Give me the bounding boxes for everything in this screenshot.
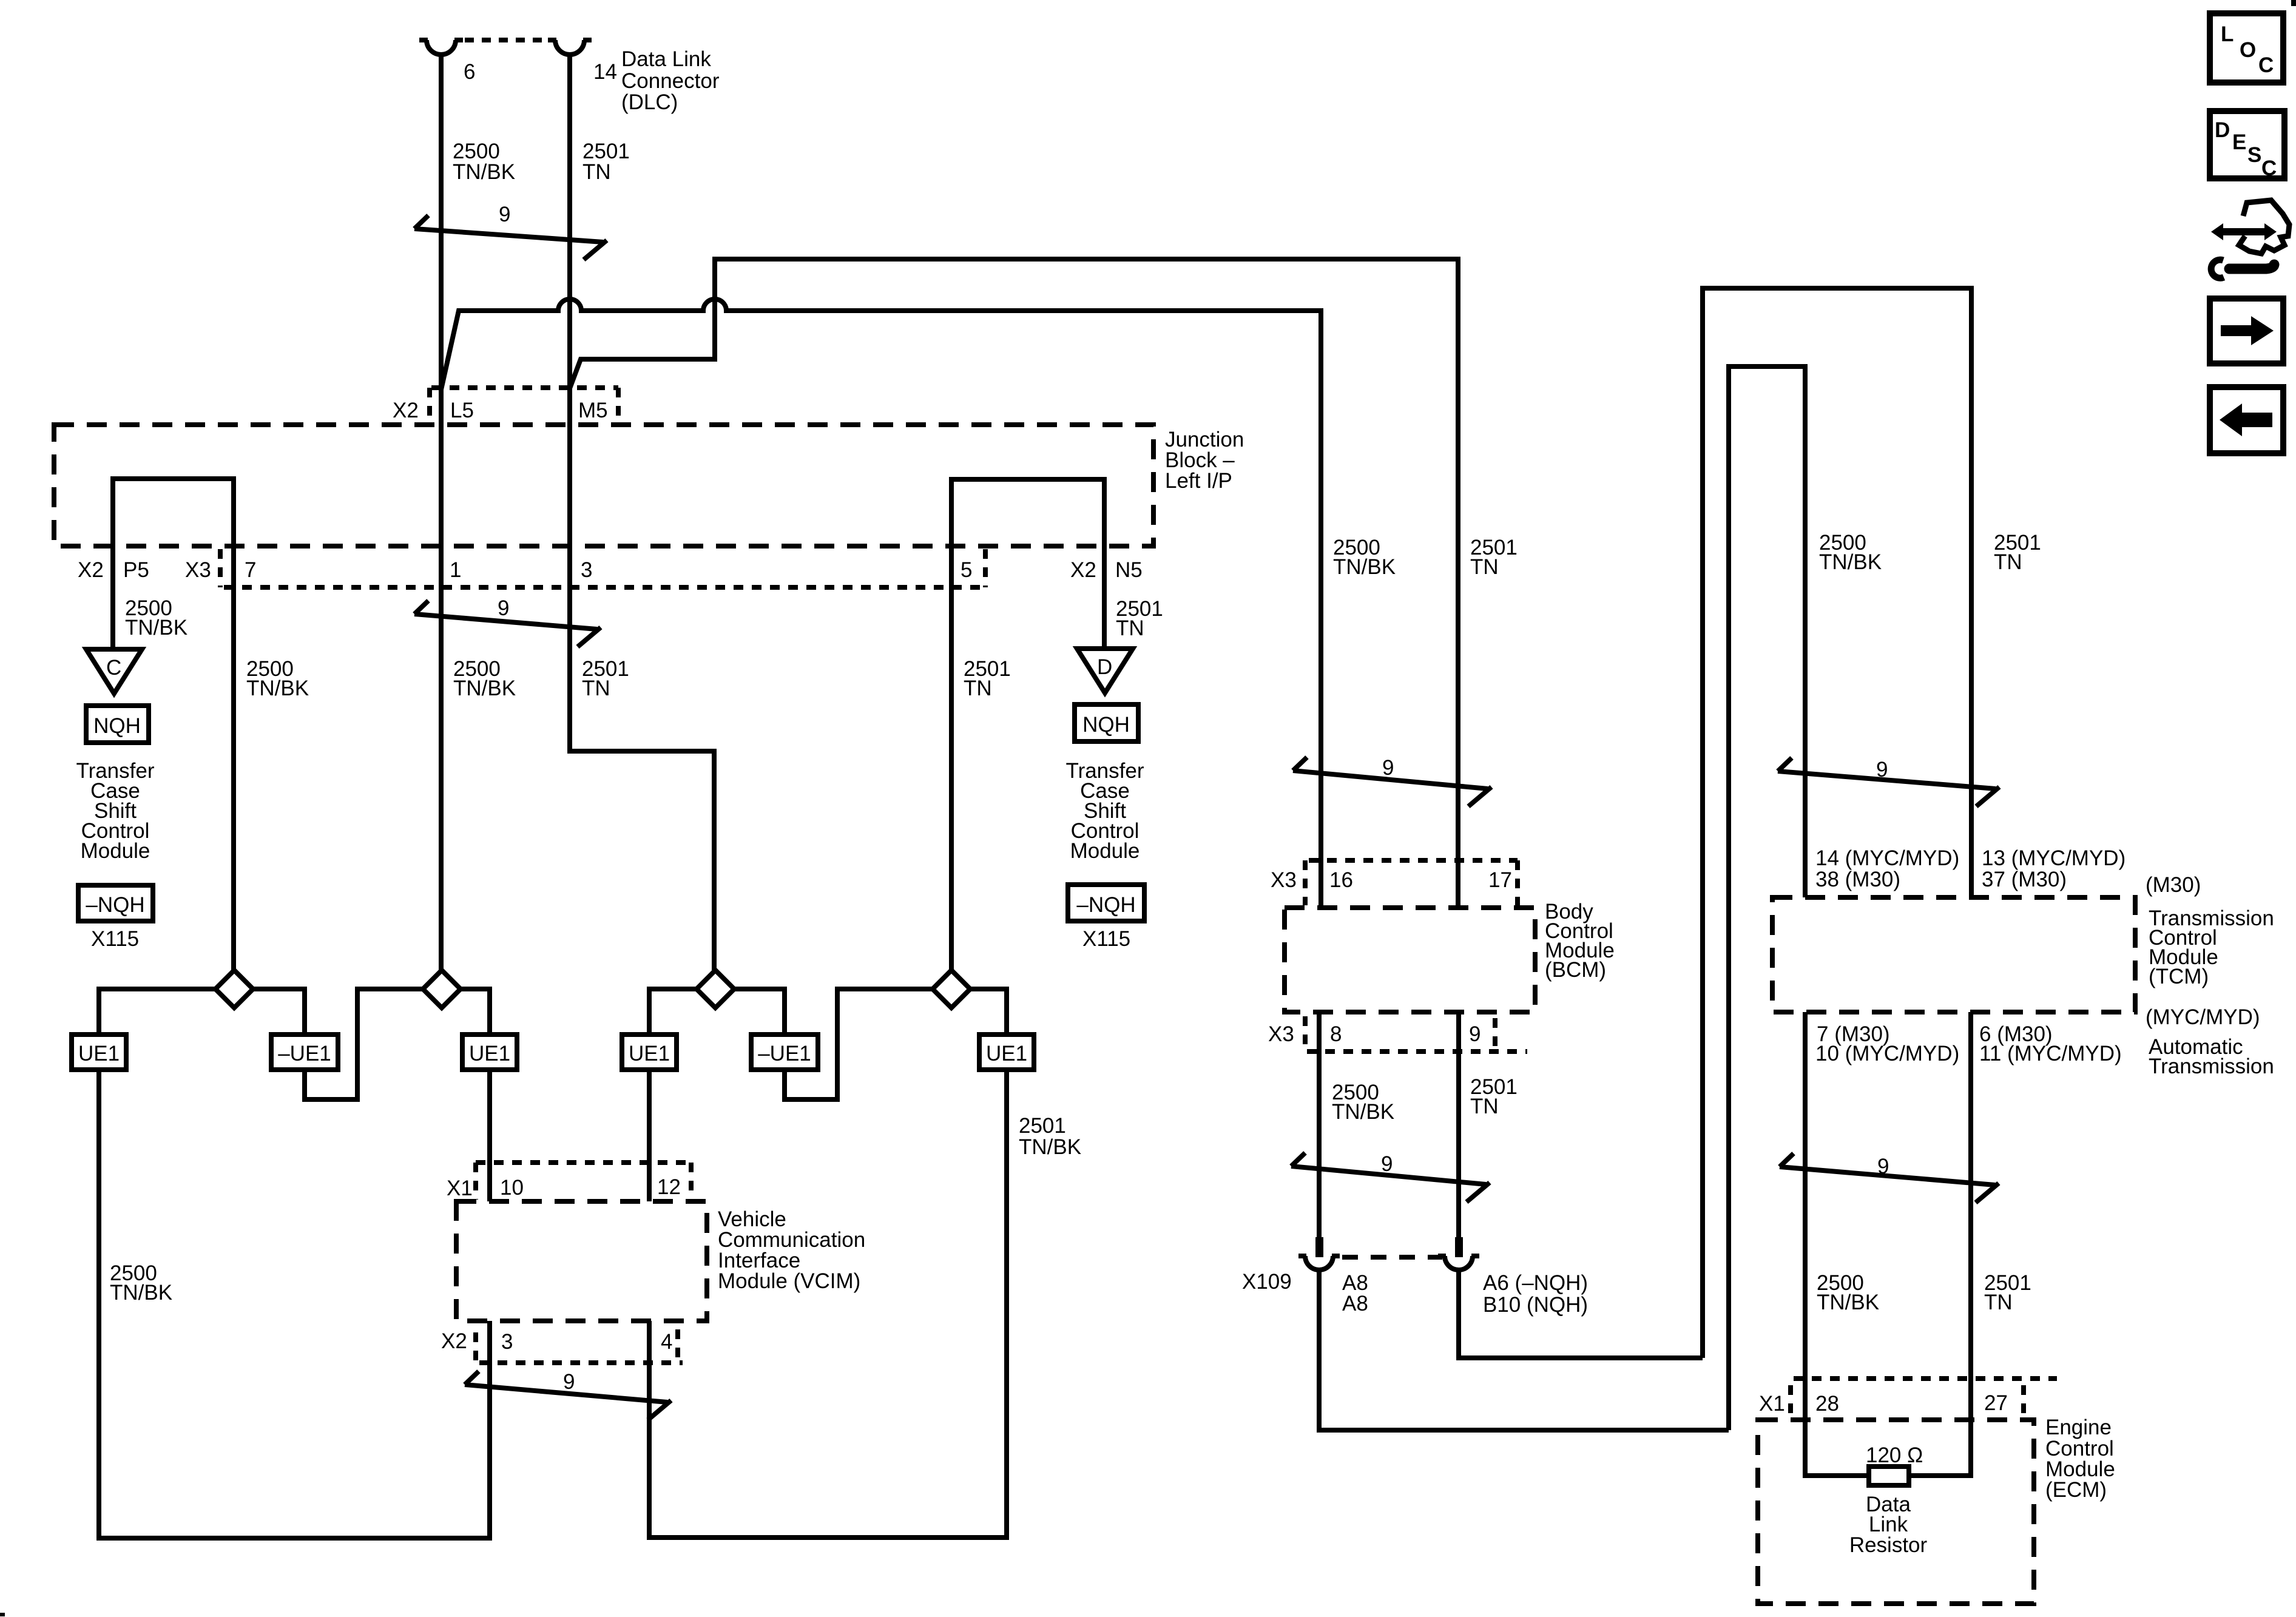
wire label 2501 TN (582, 140, 630, 184)
VCIM connector X2 dotted strip (476, 1329, 683, 1363)
svg-text:TN/BK: TN/BK (246, 677, 309, 700)
svg-text:X115: X115 (91, 927, 139, 951)
BCM label (1545, 900, 1615, 982)
wire riser up and over to TCM pin 14 (inner U) (1729, 366, 1805, 1430)
svg-text:X2: X2 (393, 399, 419, 422)
Data Link Connector (DLC) label (621, 47, 720, 114)
wire label 2500 TN/BK (pin 1 wire) (453, 657, 516, 700)
svg-text:Engine: Engine (2045, 1416, 2112, 1439)
Transfer Case Shift Control Module label (left) (76, 759, 154, 863)
svg-text:–UE1: –UE1 (758, 1042, 811, 1065)
data link resistor body (1869, 1467, 1909, 1485)
svg-text:P5: P5 (123, 558, 149, 582)
wire gauge marker 9 (below junction block) (414, 596, 601, 647)
svg-text:3: 3 (581, 558, 592, 582)
svg-text:4: 4 (661, 1330, 672, 1354)
svg-text:(ECM): (ECM) (2045, 1478, 2107, 1502)
ECM label (2045, 1416, 2115, 1502)
svg-text:12: 12 (657, 1175, 681, 1199)
svg-text:9: 9 (1381, 1152, 1393, 1176)
legend icon DESC box (2210, 111, 2284, 180)
svg-text:(BCM): (BCM) (1545, 958, 1606, 982)
wire loop from -UE1 connector 2 up to S2 left arm (305, 989, 423, 1099)
BCM connector X3 dotted strip (bottom) (1305, 1016, 1527, 1052)
off-page arrow D (to Transfer Case Shift Control Module) (1077, 649, 1133, 693)
svg-text:C: C (106, 656, 121, 680)
svg-text:M5: M5 (578, 399, 608, 422)
wire label 2501 TN (pin 5 wire) (964, 657, 1011, 700)
svg-text:38 (M30): 38 (M30) (1815, 868, 1900, 891)
wire gauge marker 9 (top, DLC wires) (414, 203, 607, 260)
wire from S3 right arm down into -UE1 connector 5 (734, 989, 785, 1035)
svg-text:TN: TN (1470, 1095, 1499, 1118)
wire 2501 TN from TCM pin 6 down to ECM pin 27 and data link resistor (1909, 1012, 1971, 1476)
in-line connector X109 pin A8 (pin stub and cup) (1298, 1237, 1340, 1270)
svg-text:UE1: UE1 (469, 1042, 510, 1065)
svg-text:TN: TN (1984, 1291, 2013, 1314)
svg-text:37 (M30): 37 (M30) (1982, 868, 2067, 891)
splice diamond S2 (423, 970, 461, 1008)
TCM terminal label 14 (MYC/MYD) / 38 (M30) (1815, 846, 1959, 891)
svg-text:TN: TN (582, 677, 610, 700)
in-line connector box UE1 (3) (462, 1035, 517, 1070)
legend icon back arrow box (2210, 387, 2283, 453)
svg-text:TN/BK: TN/BK (453, 160, 515, 184)
svg-text:9: 9 (498, 596, 509, 620)
wire loop from -UE1 connector 5 up to S4 left arm (785, 989, 933, 1099)
wire 2501 TN/BK from UE1(6) down and left to VCIM X2 pin 4 (649, 1070, 1007, 1538)
svg-text:UE1: UE1 (986, 1042, 1027, 1065)
junction block internal wire U from X2 P5 to X3 pin 7 (113, 479, 234, 970)
svg-text:(TCM): (TCM) (2149, 965, 2209, 988)
svg-text:TN/BK: TN/BK (1332, 1100, 1394, 1124)
wire 2500 TN/BK from TCM pin 7 down to ECM pin 28 and data link resistor (1805, 1012, 1869, 1476)
wire label 2500 TN/BK (below X2 P5) (125, 596, 187, 640)
BCM connector X3 dotted strip (top) (1305, 860, 1518, 905)
circuit code box NQH (right) (1075, 704, 1138, 741)
svg-text:TN: TN (582, 160, 611, 184)
svg-text:(DLC): (DLC) (621, 90, 678, 114)
svg-text:1: 1 (450, 558, 461, 582)
TCM terminal label 7 (M30) / 10 (MYC/MYD) (1815, 1022, 1959, 1065)
Data Link Resistor label (1849, 1493, 1928, 1557)
svg-text:–NQH: –NQH (86, 893, 144, 917)
wire from S1 left arm down into UE1 connector 1 (99, 989, 215, 1035)
svg-text:14: 14 (593, 60, 617, 84)
svg-text:9: 9 (1469, 1022, 1481, 1046)
wire label 2501 TN (above BCM pin 17) (1470, 536, 1518, 579)
wire gauge marker 9 (above BCM) (1293, 756, 1491, 806)
page corner mark bottom-left (0, 1613, 5, 1616)
svg-text:A8: A8 (1342, 1292, 1368, 1315)
wire label 2500 TN/BK (pin 7 wire) (246, 657, 309, 700)
wire gauge marker 9 (above ECM) (1780, 1153, 1999, 1203)
svg-text:10 (MYC/MYD): 10 (MYC/MYD) (1815, 1042, 1959, 1065)
svg-text:C: C (2261, 157, 2277, 180)
off-page arrow C (to Transfer Case Shift Control Module) (86, 649, 142, 694)
wire label 2501 TN (below X2 N5) (1116, 597, 1163, 640)
junction block connector X2 dotted strip (L5 M5) (430, 388, 618, 425)
TCM label (2149, 906, 2274, 988)
svg-text:X109: X109 (1242, 1270, 1292, 1294)
wire 2501 TN from BCM pin 9 down to X109 pin B10 (1456, 1012, 1461, 1238)
svg-text:TN: TN (1116, 616, 1144, 640)
svg-text:TN: TN (1470, 555, 1499, 579)
wire 2501 TN from DLC pin 14 down, jog right, to splice S3 (570, 55, 714, 970)
wire from S2 right arm down into UE1 connector 3 (461, 989, 490, 1035)
svg-text:5: 5 (961, 558, 972, 582)
svg-text:X3: X3 (185, 558, 211, 582)
svg-text:10: 10 (500, 1176, 524, 1200)
svg-text:16: 16 (1329, 868, 1353, 892)
wire label 2500 TN/BK (above TCM pin 14) (1819, 531, 1882, 574)
svg-text:–UE1: –UE1 (278, 1042, 331, 1065)
circuit code box NQH (left) (86, 706, 149, 743)
wire label 2500 TN/BK (above ECM pin 28) (1817, 1271, 1879, 1314)
junction block X3 dotted strip (220, 549, 985, 587)
svg-text:TN: TN (1994, 550, 2022, 574)
svg-text:X2: X2 (78, 558, 104, 582)
wire label 2500 TN/BK (below BCM pin 8) (1332, 1081, 1394, 1124)
svg-text:Module: Module (81, 839, 150, 863)
wire from S3 left arm down into UE1 connector 4 (649, 989, 697, 1035)
svg-text:17: 17 (1488, 868, 1512, 892)
wire from X109 B10 down and right to TCM pin 13 riser (1459, 1271, 1703, 1358)
svg-text:9: 9 (1876, 758, 1888, 781)
svg-text:7: 7 (245, 558, 256, 582)
in-line connector box -UE1 (5) (751, 1035, 818, 1070)
svg-text:D: D (1097, 655, 1112, 679)
splice diamond S4 (933, 970, 970, 1008)
in-line connector box UE1 (4) (622, 1035, 677, 1070)
connector DLC pin 14 cup (548, 40, 592, 55)
wire from X109 A8 down and right to TCM pin 14 riser (1319, 1271, 1729, 1430)
svg-text:6: 6 (464, 60, 475, 84)
circuit code box -NQH (left) (78, 885, 153, 921)
wire gauge marker 9 (above TCM) (1778, 758, 1999, 806)
wire label 2500 TN/BK (bottom left) (110, 1261, 172, 1305)
svg-text:D: D (2215, 118, 2230, 142)
svg-text:–NQH: –NQH (1076, 893, 1135, 917)
wire from S1 right arm down into -UE1 connector 2 (253, 989, 305, 1035)
svg-text:B10 (NQH): B10 (NQH) (1483, 1293, 1588, 1317)
Body Control Module (BCM) dashed box (1285, 908, 1535, 1012)
svg-text:8: 8 (1330, 1022, 1342, 1046)
X109 connector dashed line (1342, 1255, 1442, 1260)
wire label 2500 TN/BK (above BCM pin 16) (1333, 536, 1396, 579)
svg-text:11 (MYC/MYD): 11 (MYC/MYD) (1979, 1042, 2122, 1065)
legend icon connector-repair (double arrow, connector outline, wrench) (2211, 200, 2289, 278)
Transfer Case Shift Control Module label (right) (1065, 759, 1144, 863)
legend icon LOC box (2210, 13, 2283, 83)
svg-text:TN/BK: TN/BK (1819, 550, 1882, 574)
svg-text:120 Ω: 120 Ω (1866, 1443, 1923, 1467)
svg-text:X2: X2 (1070, 558, 1096, 582)
svg-text:9: 9 (1382, 756, 1394, 780)
svg-text:13 (MYC/MYD): 13 (MYC/MYD) (1982, 846, 2125, 870)
in-line connector box -UE1 (2) (271, 1035, 338, 1070)
svg-text:9: 9 (563, 1370, 575, 1394)
splice diamond S3 (697, 970, 734, 1008)
svg-text:UE1: UE1 (629, 1042, 670, 1065)
splice diamond S1 (215, 970, 253, 1008)
svg-text:9: 9 (499, 203, 510, 226)
svg-text:9: 9 (1877, 1155, 1889, 1178)
wire from UE1(4) down to VCIM X1 pin 12 (647, 1070, 652, 1201)
svg-text:(M30): (M30) (2146, 873, 2201, 897)
terminal label A8 / A8 (1342, 1271, 1368, 1315)
svg-text:X1: X1 (447, 1176, 473, 1200)
wire label 2501 TN (below BCM pin 9) (1470, 1075, 1518, 1118)
svg-text:S: S (2247, 143, 2261, 167)
Junction Block - Left I/P dashed box (54, 425, 1153, 546)
wire label 2501 TN/BK (below UE1 6) (1019, 1114, 1081, 1159)
wire label 2501 TN (above TCM pin 13) (1994, 531, 2041, 574)
wire label 2501 TN (above ECM pin 27) (1984, 1271, 2031, 1314)
wire 2501 TN branch (line A) from DLC pin14 wire to BCM pin 17 (570, 259, 1458, 908)
wire label 2501 TN (pin 3 wire) (582, 657, 629, 700)
svg-text:NQH: NQH (1082, 713, 1130, 737)
svg-text:3: 3 (501, 1330, 513, 1354)
in-line connector X109 pin B10 (pin stub and cup) (1438, 1237, 1479, 1270)
wire from S4 right arm down into UE1 connector 6 (970, 989, 1007, 1035)
in-line connector box UE1 (1) (72, 1035, 126, 1070)
svg-text:(MYC/MYD): (MYC/MYD) (2146, 1005, 2260, 1029)
junction block internal wire U from X3 pin 5 to X2 N5 (951, 479, 1104, 970)
VCIM connector X1 dotted strip (476, 1163, 692, 1200)
Data Link Connector (DLC) dashed outline (465, 38, 546, 42)
svg-text:Module (VCIM): Module (VCIM) (718, 1269, 860, 1293)
svg-text:Left I/P: Left I/P (1165, 469, 1232, 493)
connector DLC pin 6 cup (419, 40, 463, 55)
svg-text:X3: X3 (1268, 1022, 1294, 1046)
svg-text:28: 28 (1815, 1392, 1839, 1416)
wire riser up and over to TCM pin 13 (outer U) (1703, 288, 1971, 1358)
svg-text:X2: X2 (441, 1329, 467, 1353)
svg-text:TN/BK: TN/BK (1333, 555, 1396, 579)
in-line connector box UE1 (6) (979, 1035, 1034, 1070)
wire 2500 TN/BK from BCM pin 8 down to X109 pin A8 (1317, 1012, 1322, 1238)
svg-text:E: E (2232, 130, 2246, 154)
wire gauge marker 9 (below VCIM) (465, 1370, 671, 1420)
Transmission Control Module (TCM) dashed box (1772, 897, 2135, 1012)
svg-text:X1: X1 (1759, 1392, 1785, 1416)
wire gauge marker 9 (above X109) (1291, 1152, 1490, 1202)
ECM connector X1 dotted strip (1791, 1379, 2057, 1414)
terminal label A6 (-NQH) / B10 (NQH) (1483, 1271, 1588, 1317)
svg-text:Data Link: Data Link (621, 47, 711, 71)
svg-text:X115: X115 (1082, 927, 1130, 951)
svg-text:27: 27 (1984, 1391, 2008, 1415)
TCM terminal label 6 (M30) / 11 (MYC/MYD) (1979, 1022, 2122, 1065)
svg-text:TN/BK: TN/BK (1019, 1135, 1081, 1159)
TCM terminal label 13 (MYC/MYD) / 37 (M30) (1982, 846, 2125, 891)
wire 2500 TN/BK from DLC pin 6 down to splice S2 (439, 55, 444, 970)
circuit code box -NQH (right) (1068, 885, 1144, 921)
svg-text:N5: N5 (1115, 558, 1143, 582)
svg-text:14 (MYC/MYD): 14 (MYC/MYD) (1815, 846, 1959, 870)
svg-text:TN/BK: TN/BK (110, 1281, 172, 1305)
svg-text:X3: X3 (1271, 868, 1297, 892)
svg-text:NQH: NQH (93, 714, 141, 738)
svg-text:UE1: UE1 (78, 1042, 120, 1065)
svg-text:TN/BK: TN/BK (453, 677, 516, 700)
wire from UE1(3) down to VCIM X1 pin 10 (487, 1070, 492, 1201)
svg-text:Module: Module (1070, 839, 1140, 863)
svg-text:A6 (–NQH): A6 (–NQH) (1483, 1271, 1588, 1295)
wire 2500 TN/BK from UE1(1) down and right to VCIM X2 pin 3 (99, 1070, 490, 1538)
svg-text:Connector: Connector (621, 69, 720, 93)
TCM label Automatic Transmission (2149, 1035, 2274, 1078)
svg-text:TN: TN (964, 677, 992, 700)
svg-text:TN/BK: TN/BK (1817, 1291, 1879, 1314)
page corner mark top-right (2291, 0, 2296, 6)
Engine Control Module (ECM) dashed box (1758, 1420, 2034, 1604)
svg-text:TN/BK: TN/BK (125, 616, 187, 640)
svg-text:C: C (2258, 53, 2274, 77)
Junction Block label (1165, 428, 1244, 493)
legend icon forward arrow box (2210, 299, 2283, 363)
svg-text:L5: L5 (450, 399, 474, 422)
svg-text:2501: 2501 (1019, 1114, 1066, 1138)
svg-text:O: O (2240, 38, 2256, 62)
wire label 2500 TN/BK (453, 140, 515, 184)
wire 2500 TN/BK branch (line B) from DLC wire to BCM pin 16, hops over two wires (441, 299, 1321, 908)
svg-text:Resistor: Resistor (1849, 1533, 1928, 1557)
svg-text:L: L (2221, 22, 2234, 46)
svg-text:Transmission: Transmission (2149, 1055, 2274, 1078)
VCIM label (718, 1207, 865, 1293)
Vehicle Communication Interface Module (VCIM) dashed box (456, 1201, 707, 1321)
